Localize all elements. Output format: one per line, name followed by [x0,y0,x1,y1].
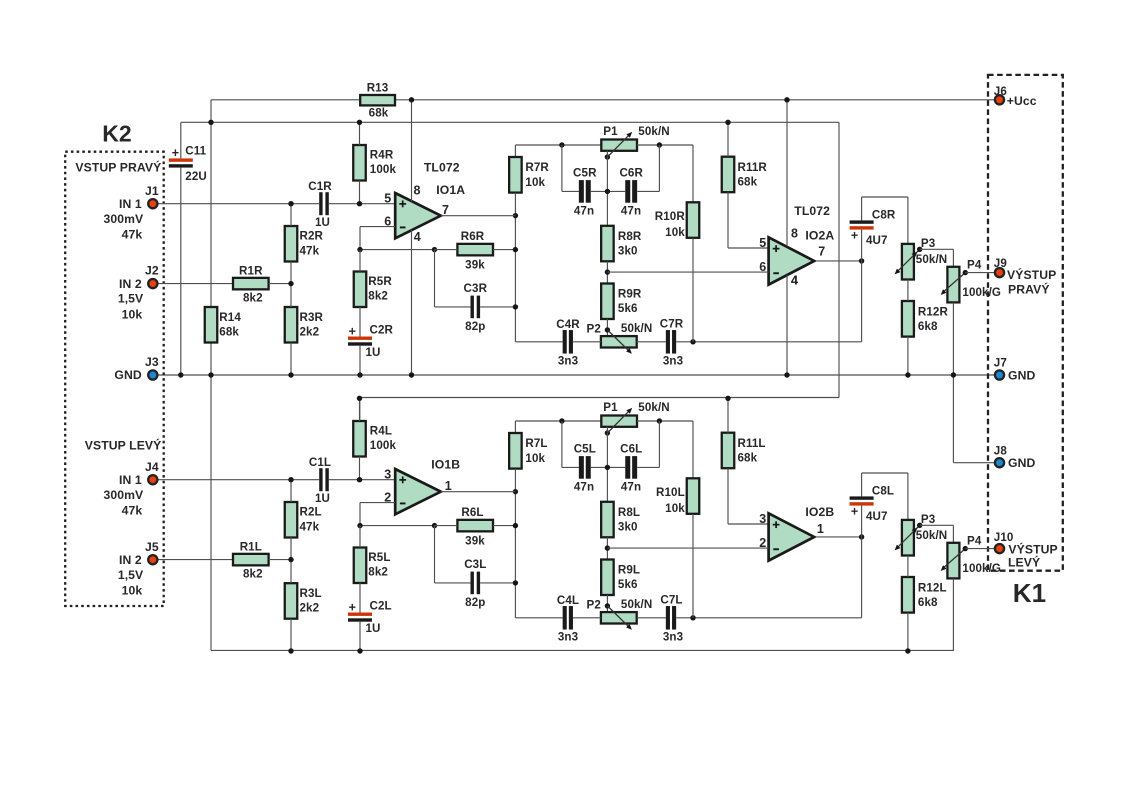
svg-text:8: 8 [414,183,421,197]
svg-text:10k: 10k [665,502,685,515]
svg-text:P2: P2 [587,598,601,611]
svg-text:100k: 100k [370,439,397,452]
svg-text:8k2: 8k2 [368,290,388,303]
svg-text:C5L: C5L [574,443,596,456]
svg-text:8: 8 [791,227,798,241]
svg-text:C5R: C5R [573,167,597,180]
svg-text:R13: R13 [367,82,389,95]
svg-text:R5L: R5L [368,551,390,564]
svg-text:68k: 68k [738,451,758,464]
svg-text:3k0: 3k0 [618,521,638,534]
svg-text:J7: J7 [994,357,1007,370]
svg-text:R4L: R4L [370,425,392,438]
svg-text:R2R: R2R [300,230,324,243]
svg-text:P2: P2 [587,322,601,335]
svg-text:47k: 47k [122,504,143,518]
svg-text:8k2: 8k2 [368,566,388,579]
svg-text:1: 1 [445,479,452,493]
svg-text:K1: K1 [1013,578,1046,608]
svg-text:C2R: C2R [370,324,394,337]
svg-text:47n: 47n [574,481,594,494]
svg-text:C11: C11 [185,144,206,157]
svg-text:IN 2: IN 2 [119,553,142,567]
svg-text:+: + [349,325,356,339]
svg-text:6: 6 [384,214,391,228]
svg-text:LEVÝ: LEVÝ [1008,555,1040,570]
svg-text:R10R: R10R [655,210,686,223]
svg-text:2k2: 2k2 [300,325,320,338]
svg-text:3: 3 [759,512,766,526]
svg-text:50k/N: 50k/N [621,322,652,335]
svg-text:8k2: 8k2 [243,568,263,581]
svg-text:P1: P1 [603,401,618,414]
svg-text:5k6: 5k6 [618,302,638,315]
svg-text:IO2A: IO2A [805,229,834,243]
svg-text:1,5V: 1,5V [118,568,144,582]
svg-text:+: + [172,146,179,160]
svg-text:47k: 47k [300,244,320,257]
svg-text:6k8: 6k8 [918,320,938,333]
svg-text:R6R: R6R [461,230,485,243]
svg-text:10k: 10k [122,584,143,598]
svg-text:10k: 10k [122,307,143,321]
svg-text:R7R: R7R [525,161,549,174]
svg-text:300mV: 300mV [103,488,144,502]
svg-text:R7L: R7L [525,437,547,450]
svg-text:GND: GND [114,368,141,382]
svg-text:IN 1: IN 1 [119,197,142,211]
svg-text:R10L: R10L [656,486,685,499]
svg-text:3n3: 3n3 [558,631,579,644]
svg-text:7: 7 [818,245,825,259]
svg-text:J1: J1 [145,184,159,198]
svg-text:IO1B: IO1B [431,457,460,471]
svg-text:C1R: C1R [308,180,332,193]
svg-text:68k: 68k [369,107,389,120]
svg-text:5k6: 5k6 [618,578,638,591]
svg-text:GND: GND [1008,456,1035,470]
svg-text:100k: 100k [370,163,397,176]
svg-text:68k: 68k [219,325,239,338]
svg-text:10k: 10k [665,226,685,239]
svg-text:47k: 47k [300,520,320,533]
svg-text:R4R: R4R [370,149,394,162]
svg-text:IN 1: IN 1 [119,473,142,487]
svg-text:8k2: 8k2 [243,292,263,305]
svg-text:R8L: R8L [618,506,640,519]
svg-text:R11R: R11R [738,161,768,174]
svg-text:C1L: C1L [309,456,331,469]
svg-text:1U: 1U [366,346,381,359]
svg-text:100k/G: 100k/G [962,562,1001,575]
svg-text:R9R: R9R [618,288,642,301]
svg-text:IN 2: IN 2 [119,277,142,291]
svg-text:TL072: TL072 [794,204,830,218]
svg-text:3n3: 3n3 [663,631,684,644]
svg-text:IO1A: IO1A [436,183,465,197]
svg-text:1U: 1U [366,622,381,635]
svg-text:50k/N: 50k/N [916,253,947,266]
svg-text:C7R: C7R [660,318,684,331]
svg-text:4U7: 4U7 [866,510,888,523]
svg-text:VÝSTUP: VÝSTUP [1008,542,1057,557]
svg-text:R9L: R9L [618,564,640,577]
svg-text:100k/G: 100k/G [962,286,1001,299]
svg-text:5: 5 [759,236,766,250]
svg-text:PRAVÝ: PRAVÝ [1008,282,1050,297]
svg-text:P3: P3 [921,513,936,526]
svg-text:R1L: R1L [240,540,262,553]
svg-text:+Ucc: +Ucc [1007,94,1037,108]
svg-text:J5: J5 [145,540,159,554]
svg-text:5: 5 [384,191,391,205]
svg-text:VÝSTUP: VÝSTUP [1007,267,1056,282]
svg-text:C7L: C7L [660,594,682,607]
svg-text:R2L: R2L [300,506,322,519]
svg-text:GND: GND [1008,368,1035,382]
svg-text:P1: P1 [603,125,618,138]
svg-text:R6L: R6L [461,506,483,519]
svg-text:R12R: R12R [918,305,949,318]
svg-text:+: + [851,504,858,518]
svg-text:6k8: 6k8 [918,596,938,609]
svg-text:3k0: 3k0 [618,245,638,258]
svg-text:TL072: TL072 [424,161,460,175]
svg-text:C8R: C8R [872,209,896,222]
svg-text:1: 1 [817,522,824,536]
svg-text:10k: 10k [525,452,545,465]
svg-text:R3L: R3L [300,587,322,600]
svg-text:R5R: R5R [368,275,392,288]
svg-text:J8: J8 [994,445,1008,458]
svg-text:47n: 47n [574,205,594,218]
svg-text:3n3: 3n3 [558,355,579,368]
svg-text:6: 6 [759,260,766,274]
svg-text:+: + [349,601,356,615]
svg-text:R8R: R8R [618,230,642,243]
svg-text:C4R: C4R [556,318,580,331]
svg-text:82p: 82p [465,320,485,333]
svg-text:1,5V: 1,5V [118,292,144,306]
svg-text:VSTUP PRAVÝ: VSTUP PRAVÝ [75,159,161,174]
svg-text:47n: 47n [621,481,641,494]
svg-text:4U7: 4U7 [866,234,888,247]
svg-text:R11L: R11L [738,437,766,450]
svg-text:4: 4 [791,274,798,288]
svg-text:2: 2 [384,490,391,504]
svg-text:10k: 10k [525,176,545,189]
svg-text:P4: P4 [967,535,982,548]
svg-text:+: + [851,228,858,242]
svg-text:7: 7 [442,203,449,217]
svg-text:300mV: 300mV [103,212,144,226]
svg-text:C3R: C3R [464,282,488,295]
svg-text:47k: 47k [122,228,143,242]
svg-text:50k/N: 50k/N [638,401,669,414]
svg-text:39k: 39k [465,259,485,272]
svg-text:68k: 68k [738,175,758,188]
svg-text:R12L: R12L [918,581,947,594]
svg-text:R3R: R3R [300,311,324,324]
svg-text:50k/N: 50k/N [916,529,947,542]
svg-text:50k/N: 50k/N [621,598,652,611]
svg-text:2k2: 2k2 [300,601,320,614]
svg-text:K2: K2 [102,120,132,146]
svg-text:P3: P3 [921,237,936,250]
svg-text:C4L: C4L [557,594,579,607]
svg-text:4: 4 [414,230,421,244]
svg-text:J2: J2 [145,264,159,278]
svg-text:VSTUP LEVÝ: VSTUP LEVÝ [85,438,162,453]
svg-text:P4: P4 [967,259,982,272]
svg-text:C2L: C2L [370,600,392,613]
svg-text:C6R: C6R [619,167,643,180]
svg-text:J4: J4 [145,460,159,474]
svg-text:1U: 1U [315,216,330,229]
svg-text:R1R: R1R [239,264,263,277]
svg-text:50k/N: 50k/N [638,125,669,138]
svg-text:J3: J3 [145,355,159,369]
svg-text:3: 3 [384,467,391,481]
svg-text:C8L: C8L [872,485,894,498]
svg-text:C6L: C6L [620,443,642,456]
svg-text:3n3: 3n3 [663,355,684,368]
svg-text:39k: 39k [465,535,485,548]
svg-text:82p: 82p [465,596,485,609]
svg-text:IO2B: IO2B [805,505,834,519]
svg-text:C3L: C3L [464,558,486,571]
svg-text:1U: 1U [315,492,330,505]
svg-text:R14: R14 [219,311,241,324]
svg-text:47n: 47n [621,205,641,218]
svg-text:22U: 22U [185,170,207,183]
svg-text:2: 2 [759,536,766,550]
